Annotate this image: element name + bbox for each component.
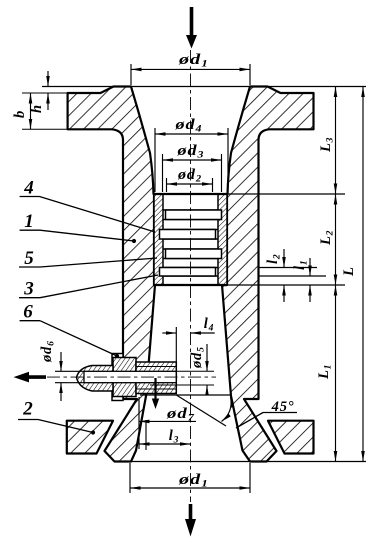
top flow arrow [190, 7, 194, 37]
dimension od7 line [139, 420, 196, 422]
dimension od3 line [163, 159, 222, 161]
bottom flow arrow [189, 504, 193, 521]
stack rung line 8 [163, 275, 218, 277]
dimension L1 [335, 285, 337, 462]
od7 extension line [138, 397, 140, 449]
tap horizontal centerline [47, 376, 216, 378]
dimension od5 arrows [206, 344, 208, 371]
svg-text:L: L [341, 266, 357, 277]
left tap arrow [27, 375, 46, 379]
dimension l4 line and arrows [162, 332, 176, 334]
extension rung l1 right [259, 275, 327, 277]
svg-text:5: 5 [24, 248, 34, 269]
dimension l3 line [139, 443, 191, 445]
tap fitting tube [136, 362, 176, 394]
body left half section [68, 87, 155, 462]
wall hole lower edge [150, 384, 214, 386]
body right half section [222, 87, 314, 462]
dimension L3 [335, 87, 337, 195]
extension stack bottom right [227, 284, 345, 286]
svg-text:3: 3 [23, 279, 34, 300]
stack rung line 2 [163, 219, 218, 221]
dimension od4 extension lines [154, 128, 156, 192]
stack rung line 7 [163, 267, 218, 269]
flange top extension left [22, 92, 68, 94]
ring 3 [166, 249, 222, 259]
tap boss on body wall [112, 354, 123, 401]
ring 2 [160, 230, 216, 240]
tap bore slot [84, 371, 176, 382]
extension stack top right [227, 193, 345, 195]
dimension l2 arrows [283, 249, 285, 268]
dimension od2 line [167, 183, 213, 185]
dimension od1 top extension lines [130, 64, 132, 85]
svg-text:2: 2 [22, 399, 33, 420]
small down arrow at hole [154, 378, 156, 400]
bottom flange 2 left section [67, 421, 113, 454]
dimension l4 extension line [175, 327, 177, 385]
svg-text:b: b [12, 110, 28, 118]
svg-text:4: 4 [23, 177, 34, 198]
45 degree arc [222, 397, 232, 422]
stack rung line 5 [163, 248, 218, 250]
svg-text:h: h [29, 104, 45, 113]
ring 4 [160, 268, 216, 277]
stack rung line 6 [163, 258, 218, 260]
extension rung l2 right [259, 267, 318, 269]
flange bottom extension left [22, 128, 68, 130]
ring stack sleeve right wall [218, 194, 227, 285]
dimension od1 bottom line [130, 487, 250, 489]
dimension od1 bottom extension lines [129, 463, 131, 493]
bottom flange 2 right section [268, 421, 314, 454]
dimension L [362, 87, 364, 462]
stack rung line 3 [163, 229, 218, 231]
vertical centerline [190, 50, 192, 502]
dimension od3 extension lines [162, 154, 164, 192]
stack bottom edge [154, 284, 227, 286]
bottom face edge line [115, 461, 367, 463]
dimension od4 line [155, 133, 228, 135]
tap fitting nose [77, 366, 114, 392]
wall hole upper edge [176, 370, 214, 372]
dimension od1 top line [131, 68, 250, 70]
ring stack sleeve left wall [154, 194, 163, 285]
tap tube step lines [136, 366, 176, 368]
dimension h arrows [47, 71, 49, 87]
chamfer 45 line [176, 395, 226, 426]
stack top edge [154, 193, 227, 195]
od6 extension lines [55, 370, 84, 372]
svg-text:1: 1 [24, 211, 34, 232]
hole bottom line [140, 394, 231, 396]
dimension od6 arrows [60, 352, 62, 371]
dimension b [30, 93, 32, 129]
stack rung line 4 [163, 238, 218, 240]
svg-text:6: 6 [23, 302, 33, 323]
ring 1 [166, 210, 222, 220]
stack rung line 1 [163, 209, 218, 211]
dimension L2 [335, 194, 337, 285]
dimension od2 extension lines [166, 178, 168, 192]
top face edge line [42, 86, 366, 88]
tap fitting collar [113, 358, 136, 397]
dimension l1 arrows [309, 258, 311, 276]
